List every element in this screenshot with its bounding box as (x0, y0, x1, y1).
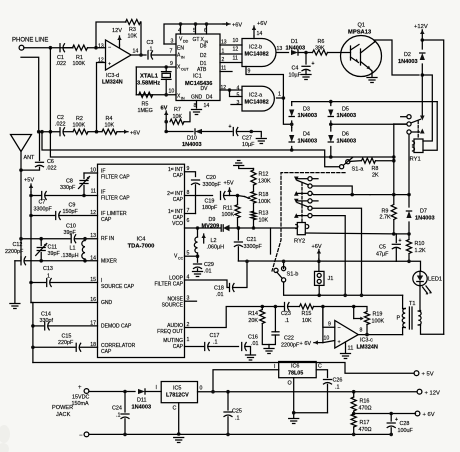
svg-text:.1: .1 (116, 413, 121, 419)
svg-text:IC2-a: IC2-a (249, 93, 262, 99)
resistor R5 (138, 92, 153, 114)
svg-text:1N4003: 1N4003 (337, 139, 357, 145)
svg-text:D4: D4 (303, 132, 310, 138)
node junction C8 bottom (82, 194, 86, 198)
svg-text:+5V: +5V (24, 178, 34, 184)
node junction row5 (360, 294, 364, 298)
ground C16 (246, 355, 256, 360)
node junction C28 bottom (389, 433, 393, 437)
svg-text:D8: D8 (200, 44, 207, 50)
svg-text:RF IN: RF IN (101, 236, 114, 242)
wire RY1 c2 feed (393, 124, 395, 195)
capacitor C12 (5, 242, 98, 265)
svg-text:R16: R16 (360, 399, 370, 405)
power +6V arrow J1 (312, 244, 322, 261)
wire left col down (31, 303, 33, 363)
svg-text:130K: 130K (258, 179, 271, 185)
resistor R19 pot (364, 312, 384, 335)
pin 14 label (204, 103, 210, 109)
svg-text:VCO: VCO (172, 221, 183, 227)
svg-text:D4: D4 (206, 95, 213, 101)
node junction DV pin5 (228, 88, 232, 92)
svg-text:R5: R5 (142, 102, 149, 108)
wire pin1 muting (185, 346, 204, 348)
ground C12 (10, 304, 20, 309)
capacitor C17 (205, 333, 239, 351)
wire feedback up (96, 22, 126, 48)
svg-text:C26: C26 (333, 378, 343, 384)
svg-text:GND: GND (191, 95, 203, 101)
wire IC6 input (213, 364, 279, 392)
wire opamp 11 gnd (345, 342, 347, 353)
svg-text:IC3-d: IC3-d (106, 73, 119, 79)
wire pin9 line (185, 172, 196, 177)
wire R3 to output (140, 22, 143, 55)
diode D7 1N4003 (406, 209, 434, 222)
ground C22 R14 (264, 349, 274, 354)
IC IC1 MC145436 box (176, 34, 220, 101)
wire Q1 down relay common (421, 75, 423, 116)
svg-text:R6: R6 (318, 39, 325, 45)
ground C29 (193, 272, 203, 277)
wire EN pin3 (164, 39, 176, 45)
node junction C25 bottom (226, 433, 230, 437)
ground IC1 (192, 110, 202, 115)
svg-text:47µF: 47µF (376, 252, 389, 258)
wire D10 line left (166, 131, 193, 133)
capacitor C16 (242, 335, 259, 355)
svg-text:+6V: +6V (232, 23, 242, 29)
svg-text:5: 5 (193, 28, 196, 34)
svg-text:4: 4 (237, 86, 240, 92)
svg-text:I: I (274, 364, 275, 370)
svg-text:S1-b: S1-b (287, 272, 299, 278)
node junction L1 top (83, 237, 87, 241)
wire IC2-a output 1 (277, 92, 284, 99)
pin 4 stub (178, 22, 182, 34)
node junction gate out (282, 96, 286, 100)
capacitor C18 (214, 261, 247, 298)
svg-text:R17: R17 (360, 420, 370, 426)
svg-text:13: 13 (98, 44, 104, 50)
ground R12 inverted (234, 161, 254, 169)
jack J1 (315, 261, 334, 295)
svg-text:C27: C27 (242, 136, 252, 142)
wire IC5 gnd pin (178, 403, 180, 434)
ground IC3c (341, 354, 351, 359)
svg-text:IC3-c: IC3-c (360, 338, 373, 344)
svg-text:20K: 20K (248, 318, 258, 324)
resistor R8 (362, 158, 379, 178)
node junction D3 D4 (290, 123, 294, 127)
wire pin16 gnd (31, 302, 98, 304)
svg-text:CAP: CAP (101, 217, 112, 223)
wire S1a to R8 (350, 160, 361, 163)
node POWER JACK plus (52, 385, 89, 418)
svg-text:C9: C9 (69, 203, 76, 209)
svg-text:ANT: ANT (24, 155, 35, 161)
wire opamp output (131, 54, 146, 56)
svg-text:+5V: +5V (224, 181, 234, 187)
relay RY1 lever (411, 119, 421, 123)
node junction tip on R2 line (49, 130, 53, 134)
capacitor C3 (147, 40, 154, 59)
wire RY2 link dashed (301, 183, 303, 222)
svg-text:C10: C10 (66, 224, 76, 230)
svg-text:SOURCE: SOURCE (162, 303, 184, 309)
wire pin2 audio out (185, 307, 263, 328)
capacitor C23 (281, 303, 291, 325)
node junction R11 top (236, 194, 240, 198)
svg-text:.1: .1 (213, 340, 218, 346)
wire ant to C6 (21, 167, 40, 170)
node junction L1 bottom (83, 259, 87, 263)
svg-text:C: C (318, 364, 322, 370)
wire D6 vertical (330, 128, 332, 158)
svg-text:EN: EN (177, 46, 184, 52)
svg-text:.060µH: .060µH (207, 245, 225, 251)
svg-text:.1: .1 (285, 318, 290, 324)
wire pin10 (84, 172, 98, 174)
svg-text:.01: .01 (204, 269, 212, 275)
svg-text:150mA: 150mA (72, 401, 89, 407)
node junction L2 top (196, 226, 200, 230)
svg-text:2: 2 (222, 57, 225, 63)
wire phone line ring (21, 57, 39, 131)
wire R6 to Q1 base (328, 52, 342, 54)
svg-text:TDA-7000: TDA-7000 (128, 244, 155, 250)
wire pin10 xin (136, 89, 176, 95)
svg-text:FILTER CAP: FILTER CAP (154, 282, 183, 288)
svg-text:R12: R12 (259, 172, 269, 178)
resistor R17 (351, 414, 371, 434)
relay RY2 contact row6 (294, 213, 345, 295)
node junction row6 (343, 294, 347, 298)
svg-text:39K: 39K (315, 46, 325, 52)
node junction C29 top (196, 254, 200, 258)
svg-text:C11: C11 (48, 245, 58, 251)
diode D4 1N4003 (289, 132, 317, 145)
diode D11 1N4003 (132, 389, 152, 411)
svg-text:D7: D7 (420, 209, 427, 215)
relay RY2 coil (294, 223, 309, 245)
svg-text:C14: C14 (41, 312, 51, 318)
wire opamp pin12 to bias (97, 63, 106, 132)
wire T1 primary bottom (402, 328, 404, 335)
power +12V top (414, 24, 428, 40)
capacitor C14 (33, 312, 98, 330)
svg-text:1N4003: 1N4003 (415, 216, 435, 222)
wire R7 right (184, 112, 190, 122)
capacitor C24 (112, 392, 129, 435)
svg-text:470Ω: 470Ω (359, 406, 372, 412)
svg-text:2200pF: 2200pF (5, 249, 24, 255)
svg-text:220pF: 220pF (58, 340, 74, 346)
svg-text:2.7K: 2.7K (380, 215, 391, 221)
transistor Q1 MPSA13 (341, 23, 382, 77)
wire ant down to C12 (20, 170, 22, 261)
power +6V arrow R4 (117, 130, 140, 137)
svg-text:IN: IN (181, 56, 185, 60)
svg-text:SOURCE CAP: SOURCE CAP (101, 284, 135, 290)
wire gnd rail (89, 433, 391, 435)
antenna ANT (11, 135, 35, 171)
svg-text:T1: T1 (409, 301, 416, 307)
svg-text:.138µH: .138µH (61, 253, 79, 259)
wire C2 to R2 (64, 131, 74, 133)
svg-text:1.2K: 1.2K (415, 248, 426, 254)
svg-text:2200pF: 2200pF (281, 343, 300, 349)
wire phone line tip (24, 47, 73, 49)
resistor R6 (313, 39, 328, 55)
svg-text:L2: L2 (211, 238, 217, 244)
node junction C11 bottom (39, 259, 43, 263)
wire pin6 vco line (185, 227, 221, 229)
crystal XTAL1 (137, 67, 171, 95)
svg-text:MIXER: MIXER (101, 259, 117, 265)
svg-text:+: + (312, 61, 315, 67)
svg-text:8: 8 (194, 103, 197, 109)
node junction IC6 in (211, 390, 215, 394)
varactor D9 MV209 (202, 217, 297, 231)
svg-text:+ 12V: + 12V (425, 391, 440, 397)
node junction C13 (29, 281, 33, 285)
resistor R3 (126, 19, 141, 39)
svg-text:DV: DV (201, 86, 209, 92)
wire IC2-b output 13 (277, 46, 289, 53)
IC4 right pin labels (154, 166, 189, 350)
node junction R17 bottom (352, 433, 356, 437)
capacitor C27 10uF (229, 124, 256, 148)
svg-text:P: P (397, 316, 401, 322)
switch S1-a (340, 158, 365, 173)
node junction R8 end (392, 159, 396, 163)
resistor R1 (73, 45, 88, 67)
wire rail R14 C23 (262, 306, 283, 308)
power 6V arrow R7 (161, 106, 169, 120)
wire D3 vertical (291, 102, 293, 128)
IC IC5 L7812CV (161, 382, 197, 412)
LED LED1 (413, 271, 442, 294)
wire opamp out (358, 334, 402, 336)
svg-text:C16: C16 (248, 335, 258, 341)
wire D1 to R6 (298, 52, 312, 54)
svg-text:.1: .1 (335, 385, 340, 391)
wire 261 line (238, 260, 396, 262)
svg-text:C2: C2 (57, 115, 64, 121)
node junction D2 bottom (421, 73, 425, 77)
svg-text:+: + (395, 417, 398, 423)
svg-text:J1: J1 (328, 276, 334, 282)
wire C26 bottom (294, 412, 328, 414)
resistor R12 (251, 169, 271, 192)
svg-text:MPSA13: MPSA13 (348, 30, 372, 36)
ground C4 (301, 75, 311, 80)
node junction C9 (29, 214, 33, 218)
svg-text:10K: 10K (128, 34, 138, 40)
power +5V left (24, 178, 34, 193)
svg-text:C6: C6 (47, 159, 54, 165)
node junction R17 top (352, 412, 356, 416)
wire pin3 stub (231, 100, 242, 106)
relay RY2 contact row5 (308, 206, 362, 295)
power +6V arrow IC2-b pin14 (252, 21, 268, 39)
capacitor C29 (194, 256, 214, 274)
svg-text:Q1: Q1 (358, 23, 365, 29)
node terminal +12V (417, 389, 440, 396)
svg-text:9: 9 (248, 69, 251, 75)
node junction pin12 bias (95, 130, 99, 134)
svg-text:POWER: POWER (52, 405, 73, 411)
svg-text:10K: 10K (173, 114, 183, 120)
node junction R16 top (352, 390, 356, 394)
svg-text:O: O (288, 381, 292, 387)
node junction line B end (392, 155, 396, 159)
svg-text:C21: C21 (247, 237, 257, 243)
node terminal +5V (414, 371, 434, 378)
svg-text:6: 6 (204, 28, 207, 34)
svg-text:.1: .1 (235, 416, 240, 422)
svg-text:100uF: 100uF (398, 428, 414, 434)
capacitor C5 47uF (376, 234, 402, 261)
svg-text:C17: C17 (210, 333, 220, 339)
svg-text:12: 12 (233, 47, 239, 53)
svg-text:+: + (78, 385, 82, 391)
svg-text:13: 13 (277, 46, 283, 52)
ground Q1 (367, 78, 377, 83)
svg-text:MC14082: MC14082 (245, 100, 269, 106)
svg-text:IC6: IC6 (291, 364, 299, 370)
wire C27 to gnd corner (237, 132, 261, 138)
wire plus to D11 (89, 391, 135, 393)
svg-text:10µF: 10µF (289, 73, 302, 79)
svg-text:1N4003: 1N4003 (337, 113, 357, 119)
resistor R9 (380, 205, 397, 221)
node junction crystal top (164, 65, 168, 69)
node junction pin2 c27 (250, 130, 254, 134)
svg-text:C8: C8 (66, 179, 73, 185)
ground IC6 (289, 419, 299, 424)
svg-text:10K: 10K (259, 218, 269, 224)
svg-text:100K: 100K (258, 199, 271, 205)
wire RY2 stub down (270, 228, 272, 254)
svg-text:330pf: 330pf (40, 318, 54, 324)
wire IC2-b pin9 loop (246, 67, 283, 99)
svg-text:+6V: +6V (257, 21, 267, 27)
svg-text:R15: R15 (302, 311, 312, 317)
wire line B (50, 48, 393, 157)
diode D10 1N4003 (182, 129, 202, 148)
power +6V arrow opamp (300, 307, 323, 348)
wire RY2 coil right bottom (305, 232, 394, 235)
svg-text:330pF: 330pF (60, 185, 76, 191)
diode D2 1N4003 (398, 52, 425, 65)
relay RY2 contact row2 (308, 184, 354, 197)
wire IC1 D2 to pin12 (220, 47, 242, 55)
pin 8 GND stub (194, 101, 197, 110)
svg-text:+6V: +6V (312, 244, 322, 250)
svg-text:C3: C3 (147, 40, 154, 46)
svg-text:100K: 100K (222, 212, 235, 218)
node terminal +6V (415, 411, 435, 418)
wire S1b top (282, 260, 286, 269)
svg-text:IC2-b: IC2-b (249, 45, 262, 51)
svg-text:1N4003: 1N4003 (298, 113, 318, 119)
svg-text:R14: R14 (248, 311, 258, 317)
relay RY2 contact row1 (294, 177, 318, 182)
relay RY2 lever1 (298, 181, 309, 185)
svg-text:10: 10 (169, 89, 175, 95)
wire collector node to RY1 coil top (422, 75, 432, 141)
wire C23 to R15 (288, 306, 299, 308)
wire IC1 D8 to pin10 (220, 38, 242, 46)
svg-text:2K: 2K (372, 173, 379, 179)
wire RY1 link dashed (417, 121, 419, 138)
svg-text:14: 14 (204, 103, 210, 109)
svg-text:180pF: 180pF (202, 205, 218, 211)
svg-text:ATB: ATB (197, 67, 207, 73)
svg-text:.022: .022 (55, 122, 66, 128)
svg-text:11: 11 (233, 56, 238, 62)
relay RY2 contact row4 (294, 199, 318, 204)
svg-text:R19: R19 (373, 312, 383, 318)
wire line A (40, 130, 339, 167)
node junction R19 bottom (365, 333, 369, 337)
svg-text:1N4003: 1N4003 (298, 139, 318, 145)
wire D4 vertical (291, 128, 293, 151)
svg-text:9: 9 (170, 61, 173, 67)
svg-text:C19: C19 (205, 199, 215, 205)
node junction R9 top (392, 193, 396, 197)
svg-text:L1: L1 (70, 246, 76, 252)
svg-text:C28: C28 (400, 421, 410, 427)
svg-text:10K: 10K (105, 123, 115, 129)
svg-text:C15: C15 (62, 334, 72, 340)
wire T1 secondary bottom (421, 325, 444, 334)
node junction C4 (304, 51, 308, 55)
svg-text:LED1: LED1 (428, 277, 442, 283)
pin 6 stub (204, 22, 208, 34)
node junction D6 line B (329, 155, 333, 159)
gate IC2-b MC14082 (242, 39, 276, 67)
wire crystal loop left (135, 67, 137, 95)
svg-text:R2: R2 (76, 116, 83, 122)
svg-text:470Ω: 470Ω (359, 427, 372, 433)
svg-text:DD: DD (183, 40, 189, 44)
svg-text:I: I (156, 385, 157, 391)
svg-text:1N4003: 1N4003 (398, 59, 418, 65)
wire +6V rail over IC1 (164, 24, 225, 44)
capacitor C13 (31, 266, 98, 287)
svg-text:.01: .01 (216, 292, 224, 298)
svg-text:11: 11 (348, 346, 354, 352)
capacitor C4 10uF (289, 53, 315, 79)
svg-text:1: 1 (278, 92, 281, 98)
power +6V arrow IC1 (223, 22, 242, 29)
wire 6V to R7 D10 line (165, 119, 167, 132)
node junction C24 top (123, 390, 127, 394)
svg-text:C22: C22 (284, 336, 294, 342)
wire ring line a (39, 131, 60, 133)
svg-text:1MEG: 1MEG (138, 108, 153, 114)
svg-text:+ 5V: + 5V (422, 372, 434, 378)
svg-text:3300pF: 3300pF (34, 207, 53, 213)
node junction C28 top (389, 412, 393, 416)
wire DV to pin4 (220, 85, 242, 92)
node junction R7 left (164, 120, 168, 124)
resistor R2 (73, 116, 89, 134)
relay RY2 contact row3 (294, 191, 370, 196)
